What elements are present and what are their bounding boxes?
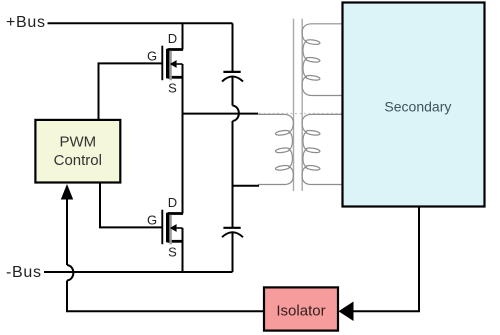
svg-text:+Bus: +Bus — [6, 14, 46, 31]
svg-text:D: D — [168, 195, 177, 210]
svg-text:G: G — [147, 48, 157, 63]
svg-text:D: D — [168, 31, 177, 46]
svg-text:Control: Control — [54, 152, 102, 169]
svg-text:Secondary: Secondary — [384, 99, 451, 115]
svg-text:PWM: PWM — [59, 134, 96, 151]
svg-text:-Bus: -Bus — [6, 264, 42, 281]
svg-text:S: S — [168, 81, 177, 96]
svg-text:G: G — [147, 212, 157, 227]
svg-text:Isolator: Isolator — [276, 303, 325, 320]
svg-text:S: S — [168, 245, 177, 260]
